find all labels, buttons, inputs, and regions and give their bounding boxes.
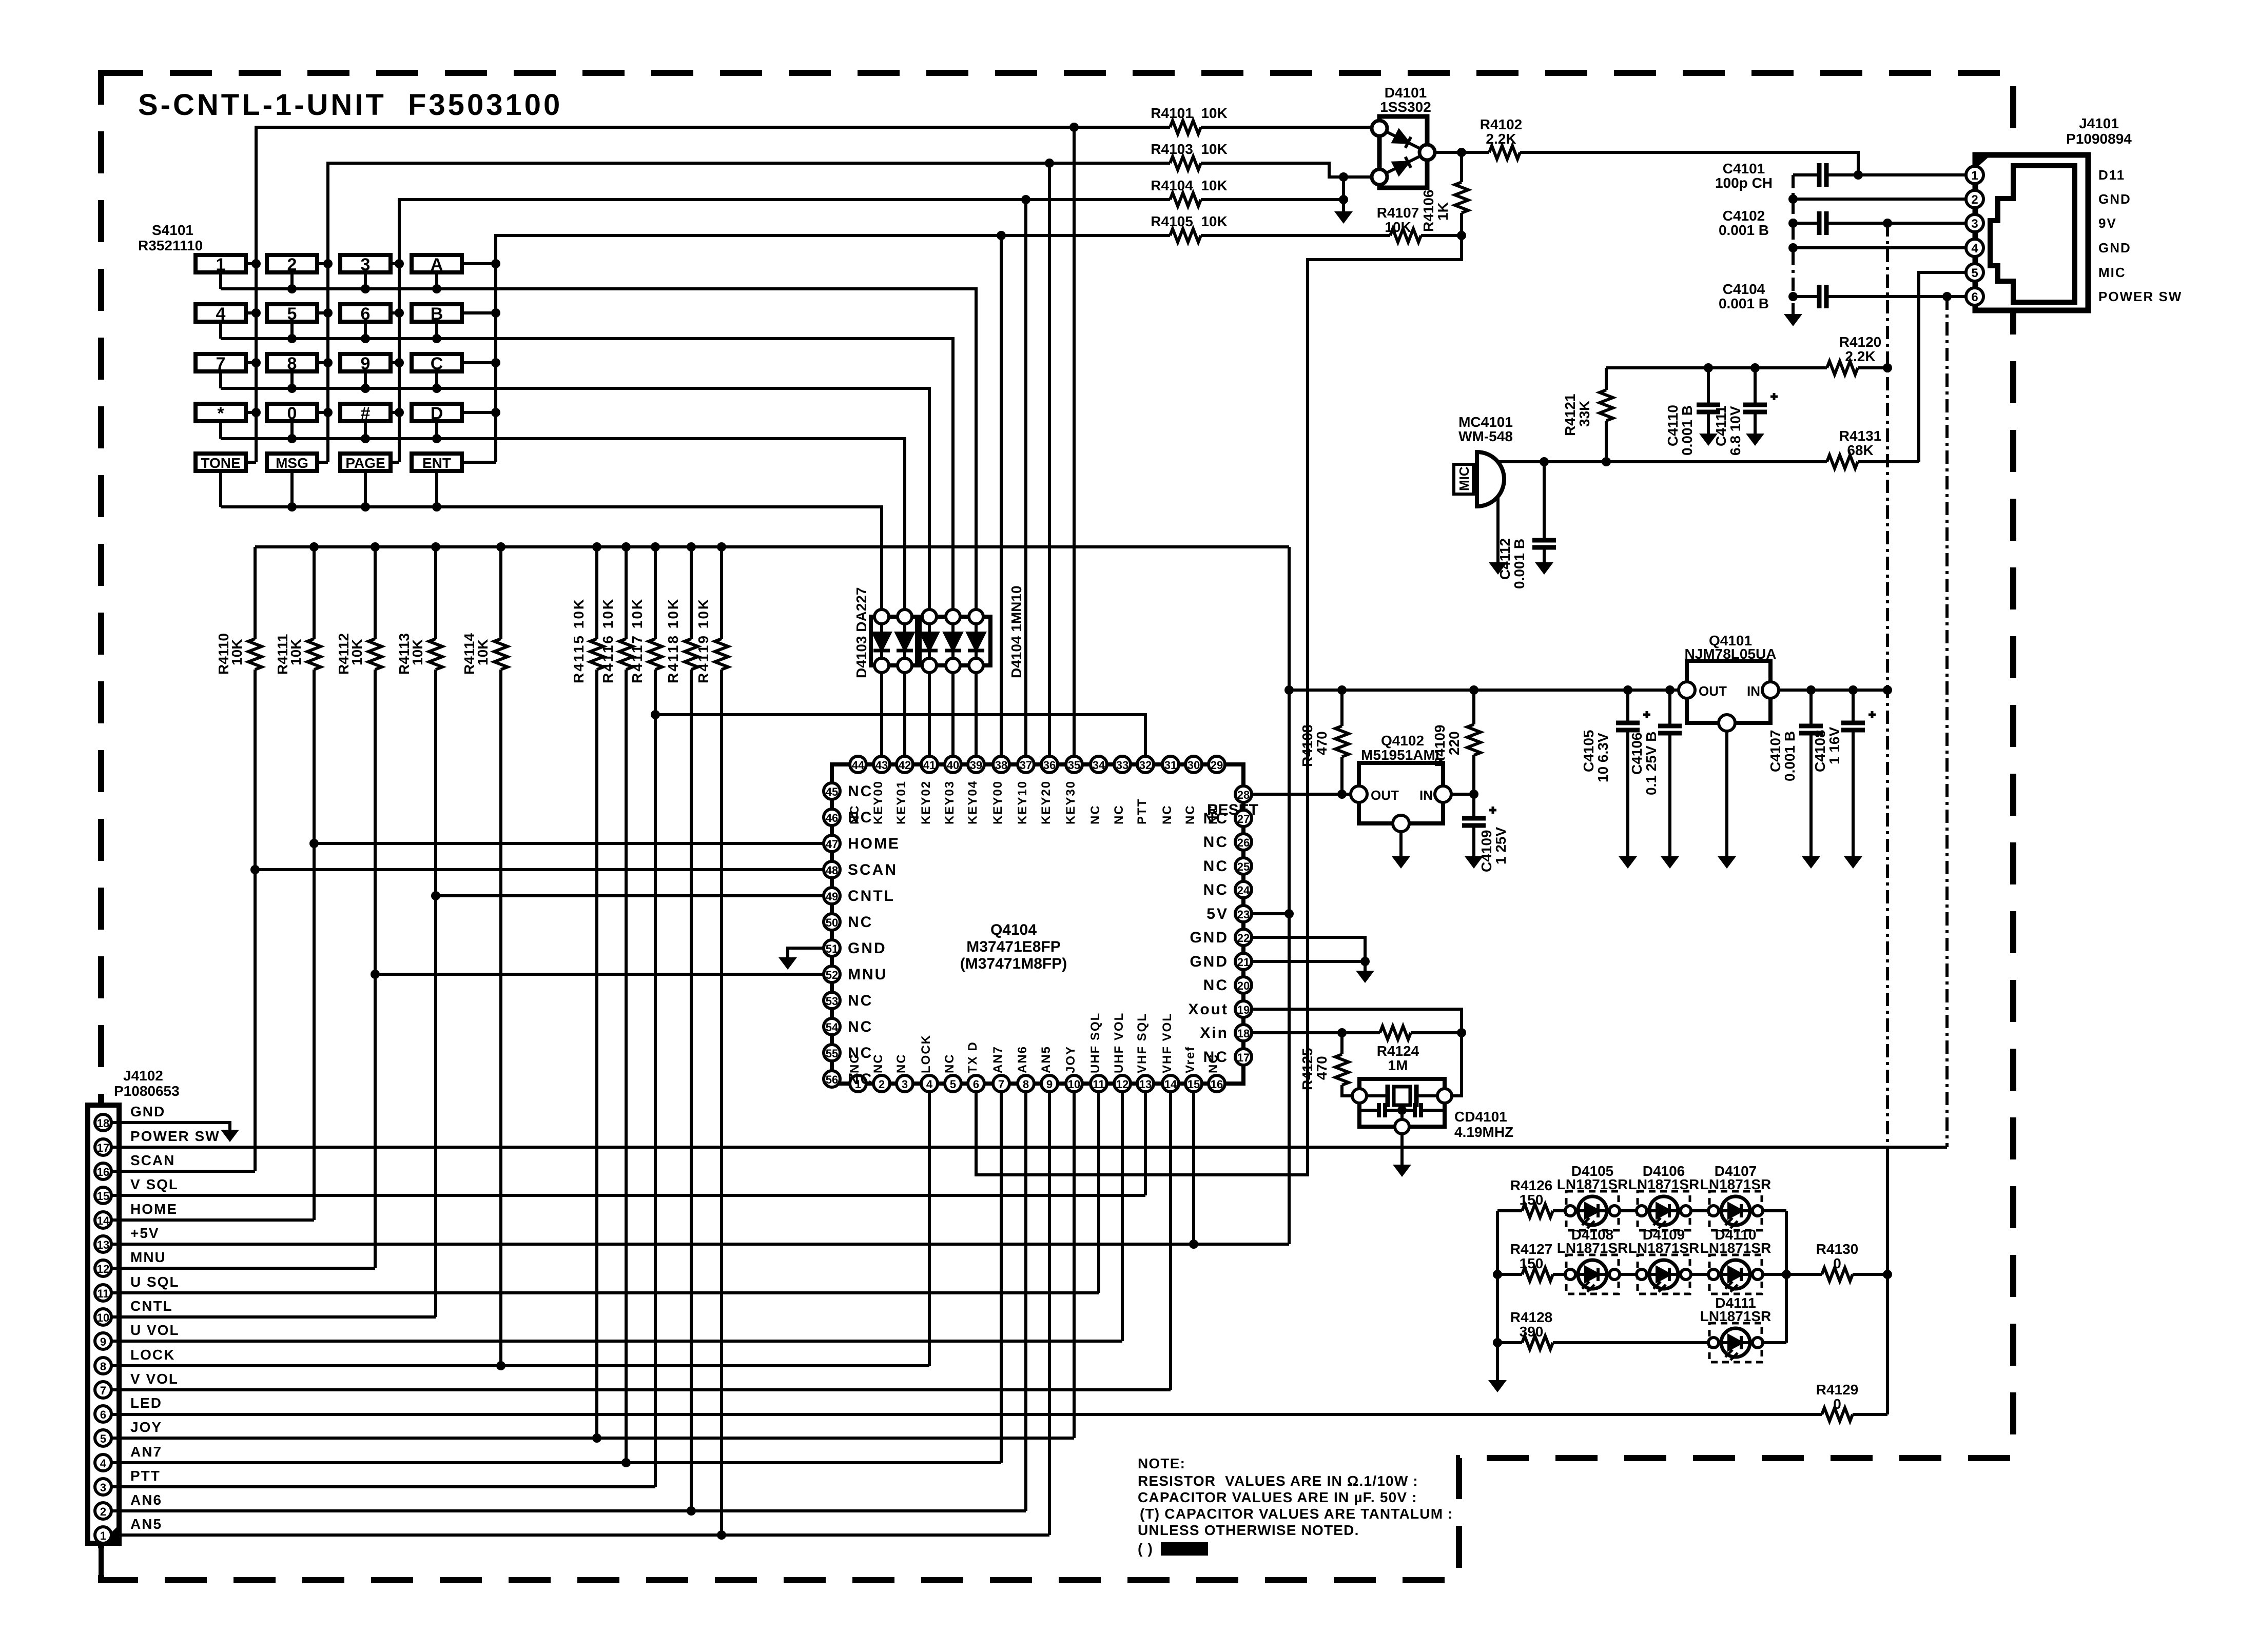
- wire KEY20 drop (pin36): [1048, 163, 1051, 756]
- resistor R4112 pull-up riser: [374, 547, 377, 1268]
- switch key ENT: [412, 454, 462, 471]
- wire POWER SW line (dash-dot): [1945, 297, 1949, 1147]
- ground (C4110): [1699, 434, 1718, 446]
- svg-text:C4106: C4106: [1629, 732, 1645, 775]
- svg-text:KEY02: KEY02: [919, 780, 933, 824]
- svg-text:8: 8: [100, 1360, 106, 1373]
- node MCU pin 41 KEY02: [921, 756, 938, 773]
- wire AN7 row: [111, 1092, 1001, 1463]
- node MCU pin 23 5V: [1235, 906, 1252, 922]
- svg-text:4.19MHZ: 4.19MHZ: [1454, 1124, 1513, 1140]
- svg-text:R4108: R4108: [1299, 724, 1315, 767]
- node MCU pin 24 NC: [1235, 881, 1252, 898]
- svg-text:0: 0: [1833, 1255, 1841, 1271]
- node MCU pin 56 NC: [824, 1071, 840, 1087]
- svg-text:41: 41: [923, 759, 936, 772]
- svg-text:C4110: C4110: [1665, 405, 1681, 446]
- svg-text:R4105 10K: R4105 10K: [1151, 213, 1227, 229]
- svg-text:0.001 B: 0.001 B: [1782, 731, 1798, 781]
- resistor R4117 pull-up riser: [654, 547, 657, 1487]
- svg-text:0.001 B: 0.001 B: [1719, 222, 1769, 238]
- wire U SQL row: [111, 1092, 1099, 1293]
- diode array D4104 1MN10: [920, 617, 990, 665]
- wire HOME into pin47: [314, 842, 824, 845]
- svg-text:5: 5: [287, 304, 297, 324]
- svg-text:2: 2: [287, 255, 297, 274]
- resistor R4101 10K: [1170, 121, 1201, 134]
- svg-text:RESISTOR VALUES ARE IN Ω.1/10: RESISTOR VALUES ARE IN Ω.1/10W :: [1138, 1473, 1418, 1489]
- svg-text:4: 4: [216, 304, 226, 324]
- svg-text:4: 4: [1971, 242, 1978, 255]
- node MCU pin 15 Vref: [1185, 1075, 1202, 1092]
- capacitor C4106 0.1 25V B: [1668, 690, 1671, 856]
- svg-text:22: 22: [1237, 932, 1250, 945]
- resistor R4109 220: [1472, 690, 1475, 794]
- node MCU pin 26 NC: [1235, 834, 1252, 850]
- wire LOCK row: [111, 1092, 929, 1366]
- resistor R4124 1M: [1380, 1026, 1411, 1039]
- svg-text:10: 10: [97, 1311, 109, 1324]
- node MCU pin 49 CNTL: [824, 888, 840, 904]
- svg-text:23: 23: [1237, 908, 1250, 921]
- svg-text:9: 9: [100, 1335, 106, 1348]
- svg-text:Xin: Xin: [1200, 1025, 1229, 1041]
- node J4102 pin 8 LOCK: [95, 1358, 111, 1374]
- wire pin22/21 GND: [1252, 937, 1365, 971]
- svg-text:POWER SW: POWER SW: [130, 1128, 220, 1144]
- switch key *: [196, 404, 246, 421]
- ground (Q4101): [1718, 856, 1736, 869]
- switch key 6: [340, 304, 391, 322]
- svg-text:10 6.3V: 10 6.3V: [1595, 733, 1611, 782]
- svg-text:AN5: AN5: [1039, 1046, 1053, 1073]
- svg-text:Q4104: Q4104: [990, 921, 1037, 938]
- wire keypad row bus 3: [221, 371, 929, 609]
- resistor R4106 1K: [1460, 152, 1463, 235]
- svg-text:NC: NC: [848, 809, 873, 826]
- wire PTT row: [655, 715, 1145, 756]
- svg-text:6: 6: [973, 1078, 979, 1091]
- svg-text:TX D: TX D: [966, 1041, 980, 1073]
- switch key TONE: [196, 454, 246, 471]
- ground (C4112): [1535, 562, 1553, 575]
- wire diode column to MCU pin: [903, 609, 906, 756]
- svg-text:HOME: HOME: [848, 835, 900, 852]
- svg-text:C4102: C4102: [1723, 208, 1765, 224]
- node MCU pin 29 NC: [1209, 756, 1225, 773]
- node MCU pin 30 NC: [1185, 756, 1202, 773]
- switch key D: [412, 404, 462, 421]
- svg-text:R4124: R4124: [1377, 1043, 1419, 1059]
- svg-text:NC: NC: [1203, 834, 1229, 851]
- node MCU pin 14 VHF VOL: [1162, 1075, 1179, 1092]
- resistor R4108 470: [1340, 690, 1344, 794]
- node J4101 pin 3: [1966, 214, 1983, 232]
- svg-text:15: 15: [97, 1190, 109, 1203]
- diode (array element): [945, 633, 961, 651]
- node J4101 pin 5: [1966, 264, 1983, 281]
- wire V VOL row: [111, 1092, 1171, 1390]
- svg-text:MNU: MNU: [130, 1249, 166, 1265]
- svg-text:9: 9: [361, 354, 371, 373]
- svg-text:49: 49: [826, 890, 838, 903]
- svg-text:C4101: C4101: [1723, 161, 1765, 176]
- resistor R4105 10K: [1170, 229, 1201, 242]
- svg-text:18: 18: [1237, 1027, 1250, 1040]
- LED D4109 LN1871SR: [1637, 1255, 1691, 1294]
- svg-text:C4108: C4108: [1812, 730, 1828, 772]
- svg-text:J4102: J4102: [123, 1068, 163, 1084]
- svg-text:51: 51: [826, 942, 838, 955]
- svg-text:NC: NC: [1203, 810, 1229, 827]
- svg-text:4: 4: [100, 1457, 107, 1470]
- resonator CD4101 4.19MHZ: [1452, 1033, 1462, 1096]
- svg-text:10K: 10K: [475, 639, 491, 665]
- ground (shield bus): [1784, 314, 1802, 326]
- capacitor C4101 100p CH: [1793, 173, 1858, 176]
- node MCU pin 3 NC: [897, 1075, 913, 1092]
- resistor R4129 0: [1822, 1408, 1853, 1421]
- svg-text:#: #: [361, 404, 371, 423]
- svg-text:R4102: R4102: [1480, 116, 1523, 132]
- svg-text:43: 43: [875, 759, 888, 772]
- wire V SQL row: [111, 1092, 1145, 1195]
- wire LED row 2: [1497, 1273, 1887, 1276]
- svg-text:9: 9: [1046, 1078, 1053, 1091]
- node J4102 pin 10 CNTL: [95, 1309, 111, 1325]
- svg-text:AN6: AN6: [1016, 1046, 1029, 1073]
- wire diode column to MCU pin: [975, 609, 978, 756]
- node MCU pin 18 Xin: [1235, 1025, 1252, 1041]
- svg-text:53: 53: [826, 995, 838, 1008]
- wire U VOL row: [111, 1092, 1122, 1341]
- svg-text:JOY: JOY: [1064, 1046, 1078, 1073]
- svg-text:SCAN: SCAN: [130, 1152, 175, 1168]
- resistor R4102 2.2K: [1489, 146, 1520, 159]
- svg-text:54: 54: [826, 1021, 839, 1034]
- switch key #: [340, 404, 391, 421]
- resistor R4126 150: [1522, 1204, 1553, 1217]
- svg-text:5: 5: [1971, 266, 1978, 280]
- wire J4101 pin4 GND: [1793, 246, 1966, 249]
- svg-text:68K: 68K: [1847, 442, 1873, 458]
- wire border stub below J4102: [99, 1543, 104, 1580]
- node MCU pin 10 JOY: [1066, 1075, 1082, 1092]
- svg-text:C4112: C4112: [1497, 538, 1513, 580]
- svg-text:LN1871SR: LN1871SR: [1628, 1240, 1700, 1256]
- svg-text:R4104 10K: R4104 10K: [1151, 178, 1227, 193]
- svg-text:VHF SQL: VHF SQL: [1135, 1013, 1149, 1073]
- resistor R4127 150: [1522, 1268, 1553, 1281]
- svg-text:GND: GND: [1190, 953, 1229, 970]
- wire JOY row: [111, 1092, 1074, 1438]
- svg-text:AN7: AN7: [991, 1046, 1005, 1073]
- svg-text:7: 7: [998, 1078, 1004, 1091]
- svg-text:24: 24: [1237, 884, 1250, 897]
- svg-text:TONE: TONE: [201, 455, 240, 471]
- svg-text:8: 8: [287, 354, 297, 373]
- svg-text:19: 19: [1237, 1004, 1250, 1016]
- svg-text:3: 3: [361, 255, 371, 274]
- svg-text:0.001 B: 0.001 B: [1511, 539, 1527, 589]
- ground (MCU GND pins): [1356, 971, 1374, 983]
- resistor R4121 33K: [1605, 368, 1608, 462]
- svg-text:5V: 5V: [1206, 906, 1229, 922]
- node MCU pin 17 NC: [1235, 1049, 1252, 1065]
- node J4102 pin 6 LED: [95, 1406, 111, 1422]
- svg-text:R4107: R4107: [1377, 205, 1419, 221]
- svg-text:R4120: R4120: [1839, 334, 1882, 350]
- svg-text:CNTL: CNTL: [130, 1298, 173, 1314]
- node MCU pin 51 GND: [824, 940, 840, 956]
- svg-text:VHF VOL: VHF VOL: [1160, 1013, 1174, 1073]
- svg-text:470: 470: [1314, 1056, 1330, 1080]
- svg-text:10K: 10K: [229, 639, 245, 665]
- wire pin23 5V: [1252, 912, 1289, 915]
- switch key 2: [267, 255, 317, 272]
- wire J4102 GND pin18: [111, 1123, 230, 1130]
- node J4102 pin 11 U SQL: [95, 1285, 111, 1301]
- wire Xout (pin19): [1252, 1009, 1462, 1033]
- switch key 3: [340, 255, 391, 272]
- node J4101 pin 4: [1966, 239, 1983, 257]
- svg-text:F3503100: F3503100: [408, 88, 562, 122]
- svg-text:32: 32: [1139, 759, 1152, 772]
- svg-text:KEY03: KEY03: [943, 780, 957, 824]
- node J4102 pin 5 JOY: [95, 1430, 111, 1446]
- node J4102 pin 7 V VOL: [95, 1382, 111, 1398]
- node MCU pin 38 KEY00: [993, 756, 1009, 773]
- svg-text:GND: GND: [2098, 240, 2131, 255]
- svg-text:S-CNTL-1-UNIT: S-CNTL-1-UNIT: [138, 88, 386, 122]
- switch key 0: [267, 404, 317, 421]
- wire LED matrix right vertical: [1785, 1211, 1788, 1343]
- svg-text:R4117 10K: R4117 10K: [629, 598, 645, 683]
- svg-text:NC: NC: [1203, 858, 1229, 875]
- svg-text:36: 36: [1043, 759, 1056, 772]
- svg-text:R4129: R4129: [1816, 1382, 1859, 1398]
- node MCU pin 47 HOME: [824, 835, 840, 852]
- resistor R4116 pull-up riser: [625, 547, 628, 1463]
- svg-text:1K: 1K: [1435, 202, 1451, 221]
- node MCU pin 36 KEY20: [1041, 756, 1058, 773]
- wire KEY30 drop (pin35): [1073, 127, 1076, 756]
- node MCU pin 2 NC: [873, 1075, 890, 1092]
- svg-text:D4104 1MN10: D4104 1MN10: [1008, 585, 1024, 678]
- svg-text:38: 38: [995, 759, 1007, 772]
- switch key B: [412, 304, 462, 322]
- node MCU pin 9 AN5: [1041, 1075, 1058, 1092]
- svg-text:NC: NC: [1112, 804, 1126, 824]
- svg-text:20: 20: [1237, 979, 1250, 992]
- connector J4101 P1090894: [1975, 155, 2088, 310]
- node J4102 pin 3 PTT: [95, 1479, 111, 1495]
- svg-text:GND: GND: [848, 940, 887, 957]
- svg-text:1: 1: [1971, 169, 1978, 183]
- svg-text:35: 35: [1068, 759, 1080, 772]
- resistor R4104 10K: [1170, 193, 1201, 206]
- svg-text:13: 13: [1139, 1078, 1152, 1091]
- wire D4101 ground stem: [1342, 177, 1345, 211]
- svg-text:1 25V: 1 25V: [1493, 827, 1509, 864]
- svg-text:42: 42: [899, 759, 911, 772]
- node MCU pin 6 TX D: [968, 1075, 984, 1092]
- svg-text:14: 14: [97, 1214, 110, 1227]
- svg-text:JOY: JOY: [130, 1419, 162, 1435]
- node J4102 pin 2 AN6: [95, 1503, 111, 1519]
- svg-text:8: 8: [1023, 1078, 1029, 1091]
- wire keypad row bus 4: [221, 421, 905, 609]
- wire diode column to MCU pin: [951, 609, 955, 756]
- svg-text:LOCK: LOCK: [130, 1347, 175, 1363]
- svg-text:37: 37: [1020, 759, 1032, 772]
- node J4102 pin 15 V SQL: [95, 1187, 111, 1204]
- svg-text:10K: 10K: [410, 639, 425, 665]
- svg-text:470: 470: [1314, 731, 1330, 755]
- svg-text:C4111: C4111: [1713, 406, 1729, 446]
- svg-text:V SQL: V SQL: [130, 1176, 179, 1192]
- svg-text:2.2K: 2.2K: [1486, 131, 1516, 147]
- ground (J4102 GND): [221, 1130, 239, 1142]
- svg-text:KEY00: KEY00: [871, 780, 885, 824]
- svg-text:KEY20: KEY20: [1039, 780, 1053, 824]
- node MCU pin 53 NC: [824, 992, 840, 1009]
- svg-text:6: 6: [361, 304, 371, 324]
- node MCU pin 19 Xout: [1235, 1001, 1252, 1017]
- svg-text:NC: NC: [848, 992, 873, 1009]
- svg-text:50: 50: [826, 916, 838, 929]
- wire resonator ground stem: [1400, 1134, 1404, 1165]
- svg-text:10K: 10K: [1385, 219, 1411, 235]
- svg-text:5: 5: [950, 1078, 956, 1091]
- wire Q4102 GND: [1399, 832, 1403, 856]
- wire keypad row bus 1: [221, 272, 976, 609]
- wire PTT row (J4102): [111, 1485, 655, 1488]
- wire AN5 row: [111, 1092, 1049, 1535]
- svg-text:1: 1: [216, 255, 226, 274]
- node MCU pin 34 NC: [1091, 756, 1107, 773]
- svg-text:10K: 10K: [349, 639, 365, 665]
- svg-text:GND: GND: [1190, 929, 1229, 946]
- resistor R4113 pull-up riser: [434, 547, 437, 1317]
- svg-text:45: 45: [826, 785, 838, 798]
- svg-text:52: 52: [826, 969, 838, 981]
- node MCU pin 37 KEY10: [1018, 756, 1034, 773]
- wire AN6 row: [111, 1092, 1026, 1511]
- wire KEY10 drop (pin37): [1024, 200, 1027, 756]
- node MCU pin 22 GND: [1235, 929, 1252, 946]
- svg-text:Vref: Vref: [1183, 1046, 1197, 1073]
- svg-text:GND: GND: [130, 1104, 165, 1119]
- node MCU pin 46 NC: [824, 809, 840, 825]
- svg-text:POWER SW: POWER SW: [2098, 289, 2182, 304]
- svg-text:NC: NC: [1183, 804, 1197, 824]
- svg-text:14: 14: [1164, 1078, 1177, 1091]
- svg-text:*: *: [217, 404, 224, 423]
- wire R4120 row: [1606, 366, 1887, 369]
- svg-text:3: 3: [902, 1078, 908, 1091]
- wire Q4101 IN to 9V: [1779, 689, 1887, 692]
- switch key 9: [340, 354, 391, 371]
- svg-text:NC: NC: [1088, 804, 1102, 824]
- svg-text:MIC: MIC: [1456, 466, 1472, 491]
- wire 9V line (dash-dot): [1886, 223, 1889, 1149]
- ground (KEY row): [1334, 211, 1353, 224]
- wire LED row 3: [1497, 1341, 1786, 1344]
- svg-text:D11: D11: [2098, 167, 2125, 183]
- svg-text:AN5: AN5: [130, 1516, 162, 1532]
- svg-text:OUT: OUT: [1699, 683, 1727, 699]
- wire MCU pin51 GND: [788, 948, 824, 957]
- svg-text:SCAN: SCAN: [848, 861, 898, 878]
- svg-text:R4109: R4109: [1432, 724, 1448, 767]
- svg-text:17: 17: [1237, 1051, 1250, 1064]
- svg-text:9V: 9V: [2098, 215, 2117, 231]
- svg-text:15: 15: [1188, 1078, 1200, 1091]
- svg-text:NC: NC: [1203, 1049, 1229, 1066]
- svg-text:PAGE: PAGE: [345, 455, 385, 471]
- svg-text:CAPACITOR VALUES ARE IN µF. 50: CAPACITOR VALUES ARE IN µF. 50V :: [1138, 1489, 1417, 1505]
- wire diode column to MCU pin: [880, 609, 883, 756]
- svg-text:LN1871SR: LN1871SR: [1700, 1308, 1772, 1324]
- wire Q4102 IN node: [1451, 793, 1474, 796]
- svg-text:NC: NC: [848, 1071, 873, 1088]
- LED D4110 LN1871SR: [1708, 1255, 1763, 1294]
- node J4101 pin 2: [1966, 190, 1983, 208]
- svg-text:UNLESS OTHERWISE NOTED.: UNLESS OTHERWISE NOTED.: [1138, 1522, 1359, 1538]
- ground (CD4101): [1393, 1165, 1411, 1177]
- diode (array element): [921, 633, 938, 651]
- svg-text:ENT: ENT: [422, 455, 451, 471]
- svg-text:D: D: [431, 404, 443, 423]
- wire keypad column bus 1 / KEY row R4101: [256, 127, 1372, 462]
- node MCU pin 55 NC: [824, 1045, 840, 1061]
- svg-text:33K: 33K: [1576, 401, 1592, 427]
- svg-text:UHF SQL: UHF SQL: [1088, 1012, 1102, 1073]
- ground (C4108): [1844, 856, 1862, 869]
- ground (Q4102): [1392, 856, 1410, 869]
- wire LED matrix left vertical: [1496, 1211, 1499, 1380]
- wire keypad row bus 2: [221, 322, 953, 609]
- svg-text:( ): ( ): [1138, 1541, 1153, 1557]
- resistor R4119 pull-up riser: [720, 547, 723, 1535]
- svg-text:7: 7: [100, 1384, 106, 1397]
- svg-text:+5V: +5V: [130, 1225, 160, 1241]
- node MCU pin 52 MNU: [824, 966, 840, 982]
- ground (C4109): [1465, 856, 1483, 869]
- svg-text:0.001 B: 0.001 B: [1679, 405, 1695, 456]
- LED D4106 LN1871SR: [1637, 1191, 1691, 1230]
- diode (array element): [873, 633, 890, 651]
- capacitor C4105 10 6.3V: [1626, 690, 1629, 856]
- node J4102 pin 14 HOME: [95, 1212, 111, 1228]
- svg-text:34: 34: [1093, 759, 1105, 772]
- wire TX D link: [976, 235, 1462, 1175]
- ground (C4105): [1619, 856, 1637, 869]
- switch key MSG: [267, 454, 317, 471]
- svg-text:CNTL: CNTL: [848, 888, 895, 904]
- MCU Q4104 M37471E8FP body: [832, 764, 1243, 1084]
- svg-text:0: 0: [1833, 1396, 1841, 1412]
- node MCU pin 45 NC: [824, 783, 840, 799]
- node MCU pin 31 NC: [1162, 756, 1179, 773]
- svg-text:R4126: R4126: [1510, 1177, 1553, 1193]
- svg-text:MSG: MSG: [276, 455, 308, 471]
- capacitor C4112 0.001 B: [1543, 462, 1546, 562]
- svg-text:3: 3: [100, 1481, 106, 1494]
- svg-text:39: 39: [970, 759, 982, 772]
- svg-text:220: 220: [1446, 731, 1462, 755]
